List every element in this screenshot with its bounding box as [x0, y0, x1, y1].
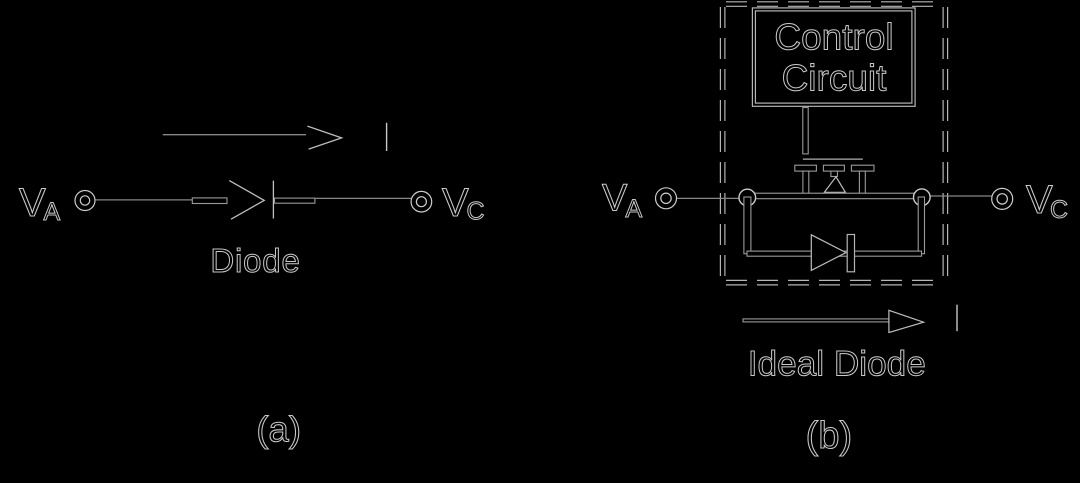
svg-text:Control: Control: [774, 17, 893, 58]
svg-text:A: A: [44, 198, 61, 226]
svg-text:V: V: [442, 181, 469, 225]
svg-text:V: V: [19, 181, 46, 225]
svg-text:A: A: [626, 195, 643, 223]
svg-text:Ideal Diode: Ideal Diode: [748, 345, 926, 384]
svg-text:Diode: Diode: [210, 242, 300, 279]
svg-text:(b): (b): [806, 415, 852, 457]
svg-text:(a): (a): [256, 409, 301, 450]
svg-text:C: C: [1050, 196, 1068, 224]
svg-text:V: V: [1026, 178, 1053, 222]
svg-text:Circuit: Circuit: [782, 58, 888, 99]
svg-text:C: C: [467, 198, 485, 226]
svg-text:V: V: [602, 178, 628, 220]
